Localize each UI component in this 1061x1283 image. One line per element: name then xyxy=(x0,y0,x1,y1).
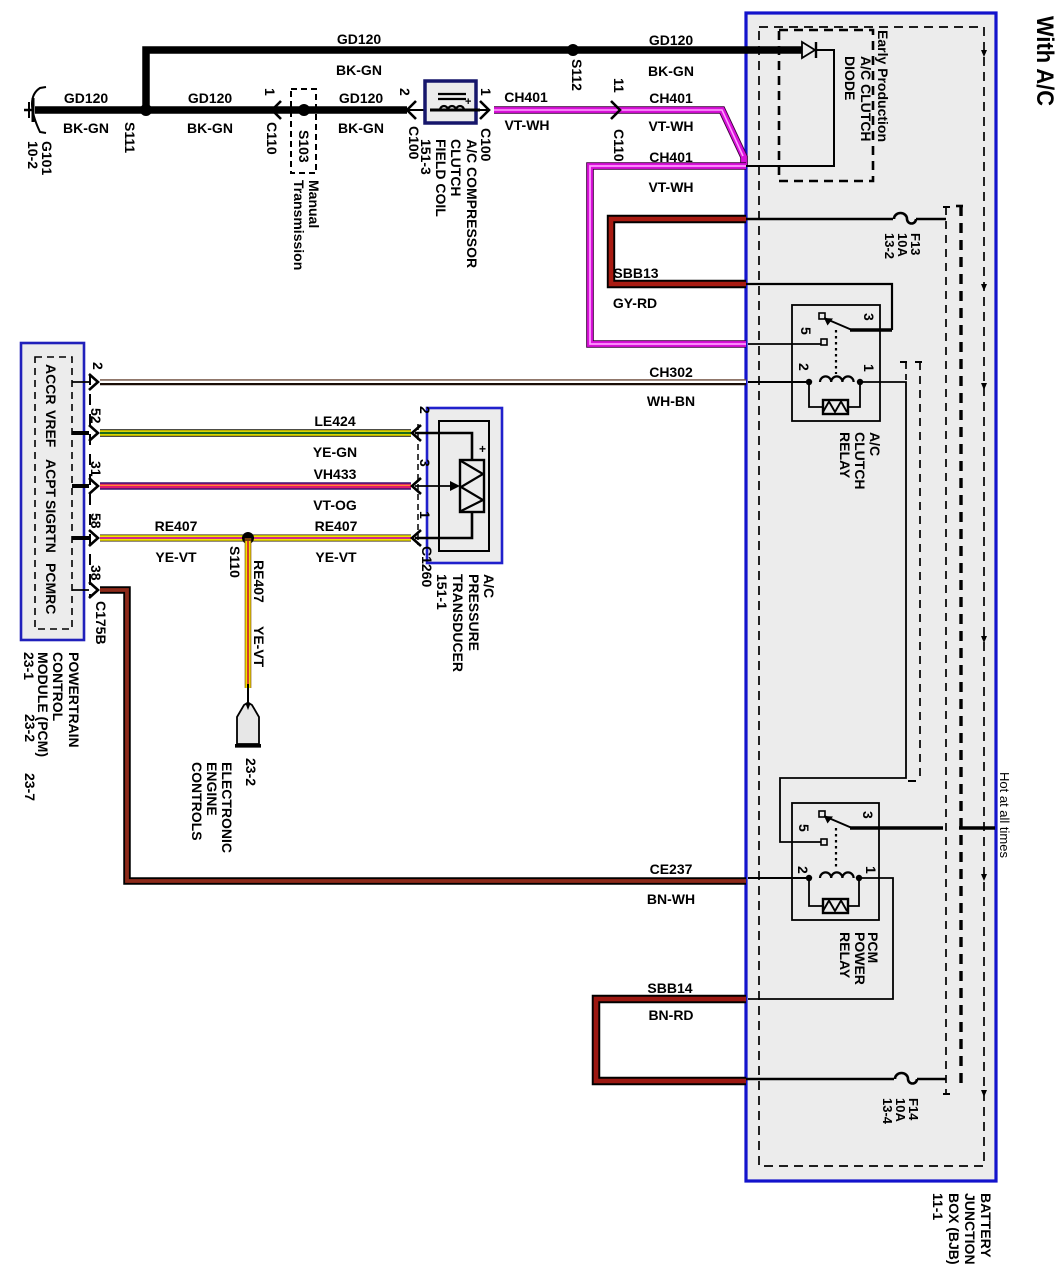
svg-text:151-3: 151-3 xyxy=(418,139,434,175)
wire CH302 WH-BN (PCM pin2 to BJB relay) xyxy=(100,382,746,384)
svg-text:1: 1 xyxy=(417,511,433,519)
bus bar dashed channel (F13/F14 feed) xyxy=(945,207,947,1094)
svg-text:YE-GN: YE-GN xyxy=(313,444,357,460)
svg-text:13-2: 13-2 xyxy=(882,233,897,259)
svg-text:A/C: A/C xyxy=(867,432,883,456)
A/C clutch diode xyxy=(802,42,815,58)
svg-text:POWER: POWER xyxy=(852,932,868,985)
svg-text:52: 52 xyxy=(88,408,104,424)
relay coil xyxy=(748,381,809,383)
svg-text:S110: S110 xyxy=(227,546,243,578)
off-page arrow to ELECTRONIC ENGINE CONTROLS xyxy=(247,684,249,706)
diode return wiring to CH401 xyxy=(746,50,834,166)
svg-text:RELAY: RELAY xyxy=(837,432,853,479)
svg-text:2: 2 xyxy=(796,363,812,371)
relay armature dotted link xyxy=(835,330,837,374)
svg-text:Manual: Manual xyxy=(306,180,322,228)
svg-text:A/C CLUTCH: A/C CLUTCH xyxy=(858,56,874,142)
ground G101 symbol xyxy=(24,87,46,133)
PCM relay coil xyxy=(748,877,809,879)
svg-text:Early Production: Early Production xyxy=(875,30,891,142)
A/C clutch relay box xyxy=(792,305,880,421)
label A/C PRESSURE TRANSDUCER 151-1 xyxy=(434,574,497,672)
splice S110 dot xyxy=(242,532,254,544)
dashed channel next to relay interconnect xyxy=(919,362,921,781)
svg-text:GY-RD: GY-RD xyxy=(613,295,657,311)
svg-text:CLUTCH: CLUTCH xyxy=(448,139,464,197)
label 23-2 ELECTRONIC ENGINE CONTROLS xyxy=(189,758,259,853)
svg-text:RE407: RE407 xyxy=(251,560,267,603)
svg-text:SIGRTN: SIGRTN xyxy=(43,500,59,553)
svg-text:SBB14: SBB14 xyxy=(647,980,692,996)
label PCM POWER RELAY xyxy=(837,932,881,985)
svg-text:ACCR: ACCR xyxy=(43,364,59,404)
svg-text:GD120: GD120 xyxy=(339,90,384,106)
svg-text:VH433: VH433 xyxy=(314,466,357,482)
svg-text:CH401: CH401 xyxy=(504,89,548,105)
relay switch blade xyxy=(819,313,825,319)
svg-text:CH302: CH302 xyxy=(649,364,693,380)
svg-text:+: + xyxy=(465,96,471,108)
diode dashed box Early Production xyxy=(779,30,873,181)
relay pin labels xyxy=(796,313,877,372)
svg-text:A/C COMPRESSOR: A/C COMPRESSOR xyxy=(464,139,480,268)
svg-text:3: 3 xyxy=(861,313,877,321)
label POWERTRAIN CONTROL MODULE (PCM) 23-1 23-2 23-7 xyxy=(21,652,82,801)
label: BATTERY JUNCTION BOX (BJB) 11-1 xyxy=(930,1193,994,1265)
wire RE407 YE-VT vertical drop from S110 xyxy=(245,538,252,688)
svg-text:VT-WH: VT-WH xyxy=(504,117,549,133)
PCM power relay box xyxy=(792,803,879,920)
wire CH401 VT-WH lower loop: BJB edge to relay pin5 xyxy=(590,166,746,344)
wire VH433 VT-OG (PCM 31 to transducer 3) xyxy=(100,482,411,490)
svg-text:38: 38 xyxy=(88,565,104,581)
svg-text:CONTROL: CONTROL xyxy=(50,652,66,722)
relay pin 5 contact xyxy=(748,343,821,345)
PCM pin 52 stub + chevron xyxy=(72,431,89,435)
svg-text:S111: S111 xyxy=(122,122,138,153)
svg-text:BK-GN: BK-GN xyxy=(648,63,694,79)
PCM relay suppression resistor xyxy=(809,878,823,906)
svg-text:23-1: 23-1 xyxy=(21,652,37,680)
fuse F14 10A xyxy=(746,1078,894,1081)
PCM pin names xyxy=(43,364,59,614)
svg-text:BOX (BJB): BOX (BJB) xyxy=(946,1193,962,1265)
svg-text:13-4: 13-4 xyxy=(880,1098,895,1125)
svg-text:TRANSDUCER: TRANSDUCER xyxy=(450,574,466,672)
relay suppression resistor xyxy=(809,382,823,407)
wire SBB14 BN-RD (red U-loop, PCM relay to fuse F14) xyxy=(596,999,746,1081)
PCM box (POWERTRAIN CONTROL MODULE) xyxy=(21,343,84,640)
svg-text:With A/C: With A/C xyxy=(1031,16,1058,106)
svg-text:+: + xyxy=(479,442,486,456)
svg-text:VT-WH: VT-WH xyxy=(648,179,693,195)
transducer variable resistor xyxy=(460,460,484,512)
svg-text:11-1: 11-1 xyxy=(930,1193,946,1220)
splice S111 xyxy=(140,104,152,116)
svg-text:23-2: 23-2 xyxy=(243,758,259,786)
svg-text:CONTROLS: CONTROLS xyxy=(189,762,205,841)
svg-text:23-7: 23-7 xyxy=(22,773,38,801)
wire GD120 into diode xyxy=(746,46,802,54)
continuation arrows on BJB dashed border xyxy=(981,50,987,1097)
wire CE237 BN-WH (PCM pin38 to BJB PCM relay) xyxy=(100,590,746,881)
svg-text:BK-GN: BK-GN xyxy=(63,120,109,136)
svg-text:RE407: RE407 xyxy=(155,518,198,534)
connector C100 pin 1 (chevron) xyxy=(476,109,489,111)
svg-text:BK-GN: BK-GN xyxy=(338,120,384,136)
svg-text:1: 1 xyxy=(478,88,494,96)
wire RE407 YE-VT (PCM 58 to transducer 1, with splice S110) xyxy=(100,535,411,542)
label Early Production A/C CLUTCH DIODE xyxy=(842,30,891,142)
svg-text:BK-GN: BK-GN xyxy=(187,120,233,136)
connector C110 pin 1 (chevron) xyxy=(272,101,281,119)
svg-text:Hot at all times: Hot at all times xyxy=(997,772,1012,858)
svg-text:GD120: GD120 xyxy=(649,32,694,48)
svg-text:VREF: VREF xyxy=(43,410,59,448)
A/C compressor clutch field coil box xyxy=(425,81,480,123)
PCM pin 31 stub + chevron xyxy=(72,484,89,488)
svg-text:C1260: C1260 xyxy=(419,546,435,587)
svg-text:BATTERY: BATTERY xyxy=(978,1193,994,1258)
relay pin 3 thick lead xyxy=(850,328,892,332)
relay pin1 lead to PCM relay pin 5 xyxy=(780,382,906,842)
svg-text:2: 2 xyxy=(795,866,811,874)
svg-text:ACPT: ACPT xyxy=(43,459,59,498)
svg-text:CE237: CE237 xyxy=(650,861,693,877)
splice S112 xyxy=(567,44,579,56)
PCM pin 58 stub + chevron xyxy=(72,536,89,540)
svg-text:C100: C100 xyxy=(478,128,494,162)
svg-text:ENGINE: ENGINE xyxy=(204,762,220,816)
label A/C COMPRESSOR CLUTCH FIELD COIL 151-3 xyxy=(418,139,480,268)
svg-text:10-2: 10-2 xyxy=(25,141,41,169)
connector C100 pin 2 (chevron) xyxy=(407,101,416,119)
svg-text:SBB13: SBB13 xyxy=(613,265,658,281)
PCM relay armature dotted link xyxy=(835,828,837,870)
svg-text:23-2: 23-2 xyxy=(22,714,38,742)
svg-text:CLUTCH: CLUTCH xyxy=(852,432,868,490)
svg-text:GD120: GD120 xyxy=(64,90,109,106)
svg-text:VT-WH: VT-WH xyxy=(648,118,693,134)
svg-text:YE-VT: YE-VT xyxy=(251,626,267,668)
svg-text:A/C: A/C xyxy=(481,574,497,598)
svg-text:BN-RD: BN-RD xyxy=(648,1007,693,1023)
svg-text:151-1: 151-1 xyxy=(434,574,450,610)
transducer pin chevrons (tips at wire ends pointing left) xyxy=(412,425,421,441)
svg-text:YE-VT: YE-VT xyxy=(315,549,357,565)
svg-text:YE-VT: YE-VT xyxy=(155,549,197,565)
PCM relay pin 3 Hot feed xyxy=(850,826,943,830)
splice S103 dot xyxy=(298,104,310,116)
svg-text:ELECTRONIC: ELECTRONIC xyxy=(219,762,235,853)
wire SBB13 GY-RD (red U-loop, fuse F13 to relay) xyxy=(611,219,746,284)
svg-text:31: 31 xyxy=(88,461,104,477)
PCM pin 38 stub + chevron xyxy=(72,589,89,591)
svg-text:11: 11 xyxy=(611,78,627,93)
svg-text:5: 5 xyxy=(796,824,812,832)
svg-text:S112: S112 xyxy=(569,59,585,91)
svg-text:PCMRC: PCMRC xyxy=(43,563,59,614)
svg-text:RE407: RE407 xyxy=(315,518,358,534)
PCM relay switch blade xyxy=(819,811,825,817)
svg-text:FIELD COIL: FIELD COIL xyxy=(433,139,449,217)
fuse F13 10A xyxy=(746,218,893,221)
svg-text:1: 1 xyxy=(861,364,877,372)
labels GD120 BK-GN (segment ground-S111) xyxy=(63,31,694,136)
BJB box: BATTERY JUNCTION BOX outer blue rectangle with gray fill xyxy=(746,13,996,1181)
PCM relay pin labels xyxy=(795,811,879,874)
wire LE424 YE-GN (PCM 52 to transducer 2) xyxy=(100,429,411,436)
svg-text:Transmission: Transmission xyxy=(291,180,307,270)
wire CH401 VT-WH (magenta): coil to C110 pin 11 to BJB corner xyxy=(494,110,744,166)
svg-text:1: 1 xyxy=(863,866,879,874)
wire into coil box xyxy=(407,109,440,111)
svg-text:CH401: CH401 xyxy=(649,149,693,165)
svg-text:DIODE: DIODE xyxy=(842,56,858,100)
svg-text:BN-WH: BN-WH xyxy=(647,891,695,907)
PCM relay pin1 lead to SBB14 xyxy=(748,878,893,999)
svg-text:2: 2 xyxy=(90,362,106,370)
transducer internal wiring xyxy=(415,433,472,460)
wire GD120 BK-GN: ground to C100 (thick black horizontal) xyxy=(35,106,407,114)
svg-text:VT-OG: VT-OG xyxy=(313,497,357,513)
PCM relay pin 5 contact xyxy=(821,839,827,845)
svg-text:5: 5 xyxy=(798,327,814,335)
label G101 10-2 xyxy=(25,141,55,175)
svg-text:58: 58 xyxy=(88,513,104,529)
svg-text:RELAY: RELAY xyxy=(837,932,853,979)
wire SBB13 to relay pin 3 (inside BJB) xyxy=(746,284,892,330)
svg-text:3: 3 xyxy=(417,459,433,467)
svg-text:2: 2 xyxy=(397,88,413,96)
labels CH401 VT-WH (coil to C110) xyxy=(504,89,693,195)
svg-text:CH401: CH401 xyxy=(649,90,693,106)
svg-text:BK-GN: BK-GN xyxy=(336,62,382,78)
svg-text:POWERTRAIN: POWERTRAIN xyxy=(66,652,82,748)
connector C175B dashed line xyxy=(89,374,91,596)
svg-text:1: 1 xyxy=(262,88,278,96)
svg-text:GD120: GD120 xyxy=(188,90,233,106)
svg-text:C110: C110 xyxy=(611,129,627,162)
svg-text:GD120: GD120 xyxy=(337,31,382,47)
wire GD120 BK-GN: S111 up and across top to BJB xyxy=(146,50,746,110)
PCM inner dashed border xyxy=(35,357,72,629)
svg-text:LE424: LE424 xyxy=(314,413,355,429)
svg-text:C175B: C175B xyxy=(93,601,109,645)
PCM pin 2 stub + chevron xyxy=(72,381,89,383)
svg-text:S103: S103 xyxy=(296,130,312,163)
connector C1260 chevrons and dashed line xyxy=(417,424,419,545)
svg-text:PRESSURE: PRESSURE xyxy=(466,574,482,651)
BJB inner dashed border xyxy=(759,27,984,1166)
splice S103 dashed box (Manual Transmission) xyxy=(291,89,316,173)
label A/C CLUTCH RELAY xyxy=(837,432,883,490)
svg-text:WH-BN: WH-BN xyxy=(647,393,695,409)
svg-text:JUNCTION: JUNCTION xyxy=(962,1193,978,1265)
svg-text:3: 3 xyxy=(860,811,876,819)
svg-text:C110: C110 xyxy=(264,122,280,155)
svg-text:2: 2 xyxy=(417,406,433,414)
A/C pressure transducer box xyxy=(415,408,502,563)
connector C110 pin 11 (chevron on magenta wire) xyxy=(611,101,620,119)
